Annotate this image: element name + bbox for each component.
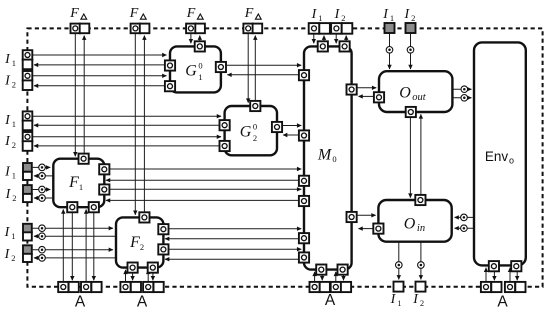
svg-text:1: 1: [198, 72, 202, 82]
machine F1: [53, 159, 104, 208]
svg-text:F: F: [68, 174, 79, 191]
svg-text:2: 2: [341, 13, 345, 23]
wire O_in down to bottom I2: [420, 242, 422, 280]
wire M0 up to I2 top: [345, 36, 347, 42]
wire A up to Env (2): [509, 268, 511, 282]
wire O_in back to M0: [359, 228, 374, 230]
free port pair F_tri 2: [131, 24, 141, 34]
free port I2 grp2: [23, 132, 33, 142]
wire O_out to Env line1: [453, 88, 472, 90]
svg-text:out: out: [412, 92, 427, 103]
wire M0 down to A (2): [343, 275, 345, 280]
free gray port I1 top: [385, 23, 395, 33]
adversary port pair 2 under M0: [331, 282, 341, 292]
svg-text:1: 1: [79, 182, 83, 192]
port F2 right 1: [158, 224, 168, 234]
wire A up to F1 (1): [62, 210, 64, 282]
adversary port pair 1 under Env: [481, 282, 491, 292]
wire F1 up to F_tri1: [83, 36, 85, 154]
svg-text:O: O: [404, 216, 416, 233]
free gray port I2 grp3: [23, 185, 32, 194]
adversary port pair 2 under F1: [81, 282, 91, 292]
port M0 bottom 1: [316, 265, 326, 275]
port M0 left 4: [299, 196, 309, 206]
wire A up to Env (1): [485, 268, 487, 282]
svg-text:in: in: [417, 223, 425, 234]
wire F1 down to A (2): [93, 212, 95, 280]
wire I1 grp3 out to F1: [33, 166, 51, 168]
svg-text:I: I: [4, 247, 11, 262]
wire G1 out to M0: [226, 64, 301, 66]
svg-text:I: I: [4, 73, 11, 88]
svg-text:2: 2: [411, 13, 415, 23]
svg-text:I: I: [334, 7, 341, 22]
machine O_out (output oracle): [379, 71, 452, 112]
wire I2 grp4 out to F2: [33, 249, 113, 251]
svg-text:I: I: [4, 52, 11, 67]
wire M0 back2 to F2: [165, 258, 300, 260]
wire F1 out2 to M0: [110, 188, 302, 190]
port G1 left 1: [165, 60, 175, 70]
free gray port I2 top: [406, 23, 416, 33]
port F2 bottom 1: [128, 263, 138, 273]
port M0 right 1: [347, 84, 357, 94]
svg-text:0: 0: [332, 154, 336, 164]
svg-text:o: o: [509, 156, 514, 166]
wire A up to F2 (2): [147, 270, 149, 282]
svg-text:G: G: [185, 63, 197, 80]
wire G1 up to F_tri3: [199, 36, 201, 42]
port F1 right 1: [99, 164, 109, 174]
wire M0 down to A (1): [321, 275, 323, 280]
wire M0 back1 to F1: [106, 179, 300, 181]
wire I1 top down to M0: [313, 34, 315, 44]
port M0 top 1: [318, 41, 328, 51]
wire G1 in to I2 grp1: [34, 85, 165, 87]
svg-text:2: 2: [12, 193, 16, 203]
svg-text:I: I: [412, 292, 419, 307]
svg-text:I: I: [390, 292, 397, 307]
port G2 top: [250, 101, 260, 111]
machine G1 (subroutine G_1^0): [170, 46, 221, 92]
svg-text:1: 1: [12, 58, 16, 68]
wire I2 top down to M0: [335, 34, 337, 44]
adversary port pair 1 under F2: [120, 282, 130, 292]
port M0 left 3: [299, 176, 309, 186]
wire F2 down to A (1): [132, 273, 134, 280]
wire O_in up to O_out: [420, 114, 422, 194]
free port pair I2 top: [331, 23, 342, 34]
wire F2 in to I2 grp4: [34, 257, 116, 259]
svg-text:2: 2: [420, 298, 424, 308]
wire M0 out to O_out: [357, 87, 376, 89]
port G2 right: [272, 122, 282, 132]
wire M0 back2 to F1: [106, 199, 300, 201]
wire I2 grp1 out to G1: [33, 75, 167, 77]
svg-text:I: I: [5, 187, 12, 202]
svg-text:1: 1: [390, 13, 394, 23]
svg-text:2: 2: [12, 79, 16, 89]
outer dashed boundary (free ports frame): [27, 28, 542, 286]
port F1 right 2: [99, 184, 109, 194]
port Env bottom 1: [489, 261, 499, 271]
free port I1 bottom: [394, 282, 404, 292]
port M0 left 6: [299, 252, 309, 262]
free port pair F_tri 1: [71, 24, 81, 34]
port G1 left 2: [165, 81, 175, 91]
svg-text:F: F: [69, 6, 79, 21]
wire I2 grp2 out to G2: [33, 136, 221, 138]
wire F2 down to A (2): [152, 273, 154, 280]
svg-text:I: I: [4, 165, 11, 180]
wire F2 out1 to M0: [169, 228, 302, 230]
machine F2: [116, 217, 163, 267]
port G2 left 2: [220, 141, 230, 151]
wire G2 up to F_tri4: [254, 36, 256, 101]
machine Env_o (environment): [474, 42, 526, 265]
free gray port I1 grp4: [23, 224, 32, 233]
port F2 bottom 2: [148, 263, 158, 273]
wire O_out to Env line2: [453, 97, 472, 99]
free port pair I1 top: [309, 23, 320, 34]
svg-text:I: I: [403, 7, 410, 22]
svg-text:1: 1: [12, 171, 16, 181]
wire Env to O_in line1: [455, 216, 474, 218]
wire I1 grp2 out to G2: [33, 115, 221, 117]
wire I2 grp3 out to F1: [33, 189, 51, 191]
free gray port I2 grp4: [23, 245, 32, 254]
wire F1 down to A (1): [71, 212, 73, 280]
machine M0 (main machine): [304, 46, 352, 269]
wire O_in down to bottom I1: [398, 242, 400, 280]
svg-text:A: A: [497, 294, 508, 311]
wire F_tri4 down to G2: [247, 34, 249, 103]
svg-text:A: A: [75, 294, 86, 311]
wire A up to F2 (1): [125, 270, 127, 282]
wire A up to M0 (2): [335, 272, 337, 282]
wire O_out down to O_in: [409, 117, 411, 197]
port G1 top: [195, 41, 205, 51]
port M0 left 1: [299, 70, 309, 80]
svg-text:A: A: [137, 294, 148, 311]
svg-text:I: I: [4, 225, 11, 240]
wire F1 in to I2 grp3: [34, 197, 53, 199]
wire M0 out to O_in: [357, 214, 376, 216]
svg-text:0: 0: [253, 122, 257, 132]
port O_out left: [374, 92, 384, 102]
wire F_tri1 down to F1: [74, 34, 76, 157]
wire F2 in to I1 grp4: [34, 235, 116, 237]
svg-text:2: 2: [253, 133, 257, 143]
svg-text:1: 1: [318, 13, 322, 23]
svg-text:I: I: [311, 7, 318, 22]
svg-text:I: I: [4, 134, 11, 149]
port M0 top 2: [340, 41, 350, 51]
adversary port pair 1 under F1: [58, 282, 68, 292]
port O_in left: [373, 224, 383, 234]
wire F1 in to I1 grp3: [34, 175, 53, 177]
wire F1 out1 to M0: [110, 168, 302, 170]
machine G2 (subroutine G_2^0): [225, 106, 277, 155]
port G2 left 1: [220, 120, 230, 130]
svg-text:2: 2: [11, 253, 15, 263]
svg-text:F: F: [129, 234, 140, 251]
svg-text:F: F: [244, 6, 254, 21]
port F1 top: [79, 154, 89, 164]
svg-text:M: M: [317, 147, 333, 164]
svg-text:I: I: [382, 7, 389, 22]
free port I2 grp1: [23, 71, 33, 81]
svg-text:O: O: [399, 85, 411, 102]
svg-text:F: F: [129, 6, 139, 21]
machine O_in (input oracle): [378, 200, 451, 242]
wire A up to F1 (2): [85, 210, 87, 282]
svg-text:1: 1: [11, 231, 15, 241]
wire M0 back1 to F2: [165, 238, 300, 240]
port O_in top: [415, 195, 425, 205]
adversary port pair 2 under Env: [505, 282, 515, 292]
wire Env down to A (2): [516, 271, 518, 280]
port F1 bottom 2: [89, 202, 99, 212]
wire gray I2 down to O_out: [410, 34, 412, 69]
wire G2 in to I1 grp2: [34, 124, 220, 126]
wire F_tri3 down to G1: [190, 34, 192, 44]
wire F2 out2 to M0: [169, 248, 302, 250]
port F1 bottom 1: [67, 202, 77, 212]
wire Env down to A (1): [493, 271, 495, 280]
free port pair F_tri 4: [243, 24, 253, 34]
wire F_tri2 down to F2: [134, 34, 136, 215]
wire G2 in to I2 grp2: [34, 145, 220, 147]
port O_out bottom: [406, 107, 416, 117]
svg-text:1: 1: [12, 119, 16, 129]
adversary port pair 1 under M0: [310, 282, 320, 292]
svg-text:2: 2: [140, 242, 144, 252]
svg-text:G: G: [240, 124, 252, 141]
svg-text:A: A: [325, 292, 336, 309]
adversary port pair 2 under F2: [143, 282, 153, 292]
free port I1 grp2: [23, 111, 33, 121]
wire G2 out to M0: [282, 125, 301, 127]
free port pair F_tri 3: [186, 24, 196, 34]
port M0 left 2: [299, 130, 309, 140]
wire M0 back to G2: [283, 134, 300, 136]
wire O_out back to M0: [359, 95, 374, 97]
svg-text:2: 2: [12, 140, 16, 150]
svg-text:F: F: [186, 6, 196, 21]
port M0 bottom 2: [338, 265, 348, 275]
wire F2 up to F_tri2: [143, 36, 145, 213]
svg-text:1: 1: [397, 298, 401, 308]
wire M0 back to G1: [227, 74, 300, 76]
wire A up to M0 (1): [314, 272, 316, 282]
svg-text:0: 0: [198, 61, 202, 71]
free gray port I1 grp3: [23, 163, 32, 172]
free port I2 bottom: [416, 282, 426, 292]
svg-text:Env: Env: [485, 149, 509, 164]
port F2 right 2: [158, 244, 168, 254]
wire I1 grp4 out to F2: [33, 227, 113, 229]
wire Env to O_in line2: [455, 227, 474, 229]
wire G1 in to I1 grp1: [34, 64, 165, 66]
port F2 top: [139, 212, 149, 222]
port Env bottom 2: [511, 261, 521, 271]
port G1 right: [216, 62, 226, 72]
port M0 left 5: [299, 233, 309, 243]
svg-text:I: I: [4, 113, 11, 128]
wire I1 grp1 out to G1: [33, 54, 167, 56]
wire gray I1 down to O_out: [389, 34, 391, 69]
free port I1 grp1: [23, 50, 33, 60]
wire M0 up to I1 top: [323, 36, 325, 42]
port M0 right 2: [347, 212, 357, 222]
